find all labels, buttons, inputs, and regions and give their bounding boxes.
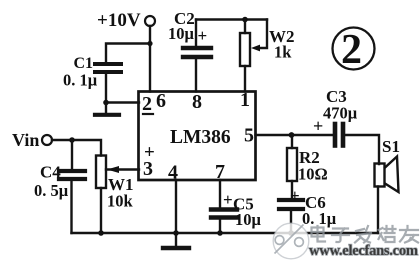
wire C4 top lead <box>71 140 73 169</box>
wire C1 bottom to node <box>105 74 107 103</box>
svg-text:1: 1 <box>240 89 250 111</box>
wire C2 bottom to pin 8 <box>195 59 197 92</box>
svg-text:www.elecfans.com: www.elecfans.com <box>309 243 418 259</box>
wire bottom rail <box>72 232 379 234</box>
svg-text:Vin: Vin <box>12 130 39 150</box>
wire Vin to W1 <box>52 140 101 156</box>
svg-text:C4: C4 <box>40 163 61 182</box>
wire W2 bottom to pin 1 <box>244 66 246 92</box>
wire W2 top lead <box>244 20 246 34</box>
svg-text:3: 3 <box>143 158 153 180</box>
wire supply branch to C1 <box>106 44 150 63</box>
ground G2 <box>163 246 189 250</box>
svg-text:S1: S1 <box>382 137 400 156</box>
svg-text:+10V: +10V <box>97 10 141 31</box>
wire C6 bottom to rail <box>290 211 292 233</box>
speaker S1 <box>375 157 399 193</box>
svg-text:2: 2 <box>341 27 362 73</box>
wire pin 4 to ground rail <box>175 180 177 246</box>
svg-text:1k: 1k <box>274 43 292 62</box>
node rail/W2 junction <box>242 17 248 23</box>
svg-text:+: + <box>290 186 300 205</box>
svg-text:6: 6 <box>156 90 166 112</box>
svg-text:10Ω: 10Ω <box>298 165 328 184</box>
node Vin/C4 junction <box>69 137 75 143</box>
terminal Vin <box>42 135 52 145</box>
node C1/pin2/ground junction <box>103 100 109 106</box>
capacitor C3 <box>335 124 343 146</box>
svg-text:C1: C1 <box>74 55 94 72</box>
wire C2 top lead <box>195 20 197 47</box>
figure number circle 2 <box>333 28 375 70</box>
svg-text:5: 5 <box>244 125 254 147</box>
wire pin 7 to C5 <box>219 180 221 207</box>
node C5/rail junction <box>217 230 223 236</box>
wire node to pin 2 <box>106 101 139 103</box>
ground G1 <box>95 103 119 115</box>
svg-text:4: 4 <box>168 162 178 184</box>
svg-text:10k: 10k <box>107 192 134 211</box>
node W1/rail junction <box>98 230 104 236</box>
node C6/rail junction <box>288 230 294 236</box>
svg-text:+: + <box>223 190 233 209</box>
watermark logo circle <box>273 223 309 259</box>
wire supply vertical to pin 6 <box>149 26 151 92</box>
svg-text:10μ: 10μ <box>235 210 262 229</box>
wire C5 bottom to rail <box>219 220 221 234</box>
wire W1 wiper to pin 3 <box>106 168 139 170</box>
wire speaker bottom to rail <box>377 187 379 234</box>
capacitor C6 <box>279 200 303 209</box>
potentiometer W1 <box>96 156 106 189</box>
capacitor C1 <box>95 64 121 72</box>
op-amp U1 LM386 body <box>139 92 256 181</box>
wire R2 top lead <box>291 135 293 148</box>
svg-text:8: 8 <box>192 91 202 113</box>
wiper arrow W1 <box>107 166 119 173</box>
capacitor C4 <box>59 171 85 179</box>
watermark text dianzifashaoyou <box>312 226 419 243</box>
svg-text:10μ: 10μ <box>168 24 195 43</box>
node pin4/rail junction <box>173 230 179 236</box>
svg-text:0. 1μ: 0. 1μ <box>63 71 98 90</box>
resistor R2 <box>287 148 297 181</box>
potentiometer W2 <box>240 33 250 66</box>
svg-text:0. 5μ: 0. 5μ <box>34 181 69 200</box>
wire W2 wiper loop <box>258 20 267 49</box>
wire C4 bottom to rail <box>70 181 72 233</box>
node output junction <box>289 132 295 138</box>
wire top rail C2/W2 <box>196 18 267 20</box>
capacitor C2 <box>183 48 211 57</box>
wire W1 bottom to rail <box>100 188 102 233</box>
svg-text:7: 7 <box>215 161 225 183</box>
wire C3 to speaker <box>345 135 379 164</box>
svg-text:2: 2 <box>142 93 152 115</box>
wire pin 5 output <box>256 134 334 136</box>
wiper arrow W2 <box>251 45 260 52</box>
svg-text:+: + <box>313 116 323 136</box>
svg-text:470μ: 470μ <box>323 104 358 123</box>
pin 2 minus dash <box>143 113 153 115</box>
wire R2 to C6 <box>291 181 293 198</box>
svg-text:LM386: LM386 <box>170 127 231 148</box>
svg-text:+: + <box>198 26 208 45</box>
terminal +10V <box>145 16 155 26</box>
capacitor C5 <box>211 210 237 218</box>
svg-text:0. 1μ: 0. 1μ <box>302 209 337 228</box>
node supply/C1 junction <box>147 41 152 46</box>
